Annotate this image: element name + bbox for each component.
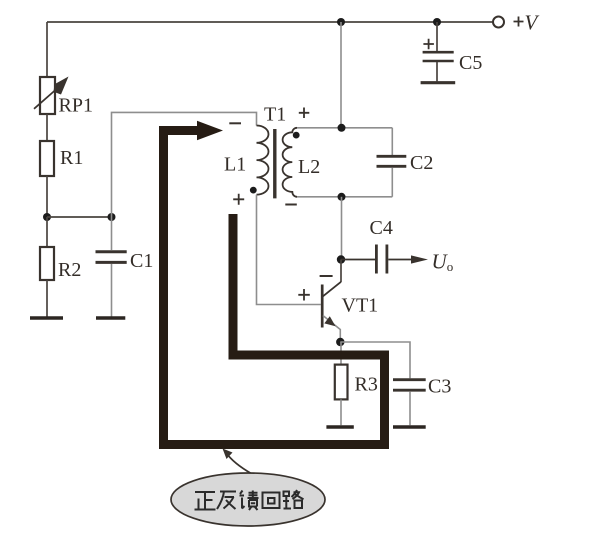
- annotation arrow from ellipse to loop: [223, 449, 253, 475]
- svg-text:V: V: [525, 11, 540, 35]
- svg-text:R2: R2: [58, 259, 81, 281]
- capacitor C2: [377, 128, 407, 197]
- polarity - at L1 top: [229, 122, 241, 124]
- terminal +V open circle: [493, 17, 504, 28]
- capacitor C3: [393, 380, 426, 426]
- svg-text:C3: C3: [428, 376, 451, 398]
- label +V: [514, 11, 540, 35]
- wire: L2/C2 bottom rail: [297, 196, 392, 198]
- svg-text:C4: C4: [370, 217, 393, 239]
- wire: L2/C2 top rail: [297, 127, 392, 129]
- wire: top supply rail: [47, 21, 493, 23]
- callout ellipse 正反馈回路: [171, 473, 325, 526]
- wire: left column from rail to RP1: [46, 22, 48, 77]
- node: emitter junction: [336, 338, 344, 346]
- svg-text:R1: R1: [60, 147, 83, 169]
- node: tank bottom junction: [338, 193, 346, 201]
- wire: emitter node to C3: [340, 342, 410, 378]
- svg-text:o: o: [447, 259, 454, 274]
- svg-text:C1: C1: [130, 250, 153, 272]
- svg-text:C2: C2: [410, 152, 433, 174]
- wire: R1 to node A: [46, 176, 48, 217]
- node: tank top junction: [338, 124, 346, 132]
- node: top rail junction to collector column: [337, 18, 345, 26]
- transformer T1 winding L1: [257, 126, 269, 195]
- node B (C1 junction): [108, 213, 116, 221]
- wire: tank bottom to collector node: [341, 197, 343, 260]
- wire: base from L1: [257, 195, 322, 305]
- glyph 路: [283, 490, 304, 509]
- capacitor C4: [341, 245, 428, 274]
- label Uo: [432, 250, 454, 275]
- polarity + right of T1: [299, 108, 310, 119]
- feedback loop thick path: [164, 131, 385, 445]
- ground: below R3: [326, 425, 353, 428]
- transistor VT1: [322, 260, 341, 343]
- capacitor C1: [96, 217, 127, 317]
- svg-text:RP1: RP1: [59, 95, 93, 117]
- polarity - at L2 bottom: [285, 204, 297, 206]
- resistor R3: [335, 342, 348, 425]
- node A (divider junction): [43, 213, 51, 221]
- wire: node B up and right to L1 top: [112, 112, 257, 217]
- node: collector / C4 junction: [337, 255, 345, 263]
- glyph 反: [217, 492, 236, 510]
- wire: RP1 to R1: [46, 114, 48, 141]
- resistor R1: [40, 141, 54, 176]
- wire: node A to node B: [47, 216, 112, 218]
- glyph 回: [263, 493, 280, 509]
- wire: top rail down to tank top: [340, 22, 342, 128]
- ground: below C1: [96, 316, 125, 319]
- glyph 馈: [240, 491, 259, 511]
- svg-text:L1: L1: [224, 154, 246, 176]
- phase dot of L2: [293, 132, 300, 139]
- text 正反馈回路 (drawn strokes): [195, 490, 304, 510]
- svg-text:VT1: VT1: [342, 295, 379, 317]
- svg-text:C5: C5: [459, 52, 482, 74]
- polarity + at base: [298, 289, 310, 301]
- glyph 正: [195, 492, 216, 510]
- polarity - above collector: [320, 275, 333, 277]
- svg-text:L2: L2: [298, 156, 320, 178]
- potentiometer RP1: [34, 77, 69, 115]
- node: top rail junction to C5: [433, 18, 441, 26]
- capacitor C5: [421, 22, 456, 83]
- resistor R2: [40, 217, 54, 317]
- svg-text:R3: R3: [355, 374, 378, 396]
- polarity + at L1 bottom: [233, 194, 244, 205]
- ground: below C3: [393, 425, 426, 428]
- feedback loop arrowhead: [197, 121, 223, 140]
- svg-text:T1: T1: [264, 104, 286, 126]
- transformer T1 winding L2: [283, 128, 297, 197]
- ground: below R2: [30, 316, 63, 319]
- phase dot of L1: [250, 187, 257, 194]
- transformer T1 core: [273, 129, 276, 198]
